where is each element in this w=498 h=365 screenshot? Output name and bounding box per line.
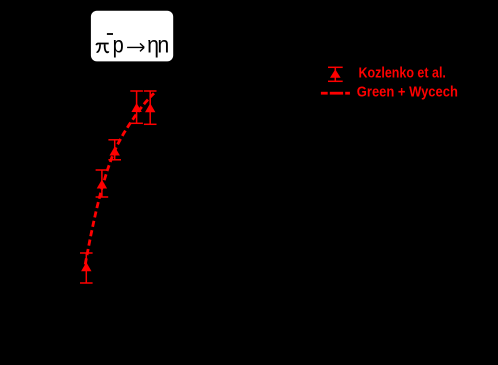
legend marker Kozlenko: triangle bbox=[330, 69, 341, 78]
title text eta bbox=[147, 32, 159, 58]
legend marker Kozlenko: error bar bbox=[328, 67, 343, 81]
data point P2 error bar bbox=[96, 170, 109, 197]
title superscript minus bbox=[107, 33, 113, 35]
title box bbox=[91, 11, 173, 62]
title text n bbox=[157, 32, 169, 58]
svg-text:Kozlenko et al.: Kozlenko et al. bbox=[359, 65, 446, 81]
title text pi (drawn) bbox=[96, 43, 108, 52]
dashed theory curve (Green + Wycech) bbox=[85, 93, 154, 264]
legend dashed line Green + Wycech bbox=[321, 92, 350, 95]
title arrow bbox=[127, 43, 144, 51]
data point P1 error bar bbox=[80, 253, 93, 283]
data point P5 error bar bbox=[144, 91, 157, 124]
data point P3 marker bbox=[110, 147, 120, 156]
svg-text:n: n bbox=[157, 32, 169, 58]
title text p bbox=[113, 31, 124, 58]
data point P1 marker bbox=[81, 262, 91, 271]
data point P4 error bar bbox=[130, 91, 143, 123]
svg-text:p: p bbox=[113, 31, 124, 58]
svg-text:Green + Wycech: Green + Wycech bbox=[357, 83, 458, 100]
data point P2 marker bbox=[97, 180, 107, 189]
legend text Green + Wycech bbox=[357, 83, 458, 100]
legend text Kozlenko et al. bbox=[359, 65, 446, 81]
data point P4 marker bbox=[131, 103, 141, 112]
data point P3 error bar bbox=[108, 140, 121, 160]
data point P5 marker bbox=[145, 103, 155, 112]
